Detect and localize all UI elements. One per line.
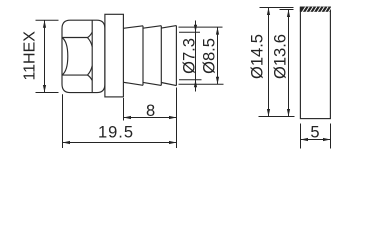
- svg-text:Ø7.3: Ø7.3: [180, 38, 198, 74]
- dia8.5 dimension line: [217, 27, 219, 84]
- arrow dim8 left: [124, 116, 132, 119]
- hex nut body silhouette: [62, 20, 105, 92]
- svg-text:5: 5: [310, 124, 319, 142]
- arrow dia8.5 top inside: [216, 27, 219, 34]
- dia7.3 dimension line: [195, 21, 197, 92]
- dim 5 left extension line: [300, 124, 302, 149]
- 11HEX dimension line: [44, 20, 46, 92]
- dia8.5 bottom extension line: [179, 83, 224, 85]
- hex middle facet left arc: [62, 38, 68, 76]
- 11HEX bottom extension line: [36, 92, 59, 94]
- shared right extension line: [176, 88, 178, 149]
- arrow dia7.3 top outside: [194, 25, 197, 33]
- svg-text:Ø8.5: Ø8.5: [200, 38, 218, 74]
- dia13.6 dimension line: [288, 10, 290, 117]
- svg-text:8: 8: [146, 102, 155, 120]
- 11HEX top extension line: [36, 19, 59, 21]
- dia8.5 top extension line: [179, 26, 223, 28]
- arrow 11HEX up: [43, 20, 46, 28]
- barb segment 3 top edge: [161, 26, 176, 29]
- barb segment 2 top edge: [143, 26, 161, 29]
- dim 5 dimension line: [301, 139, 331, 141]
- barb segment 3 bottom edge: [161, 83, 176, 86]
- arrow dim19.5 right: [169, 141, 177, 144]
- arrow dia14.5 down: [267, 109, 270, 117]
- barb step 2: [160, 26, 162, 86]
- hex lower facet right arc: [88, 75, 93, 81]
- dim 5 right extension line: [330, 124, 332, 149]
- arrow dim19.5 left: [63, 141, 71, 144]
- shared bottom extension line: [259, 116, 295, 118]
- sleeve hatched crimp band: [300, 7, 332, 12]
- barb segment 1 bottom edge: [123, 82, 143, 85]
- svg-text:11HEX: 11HEX: [22, 31, 39, 81]
- hex chamfer face line: [91, 20, 93, 92]
- hex middle facet right upper arc: [88, 38, 93, 47]
- svg-text:Ø13.6: Ø13.6: [271, 34, 289, 79]
- hex facet line lower: [62, 74, 88, 76]
- arrow dia13.6 up: [287, 10, 290, 18]
- dia7.3 bottom extension line: [179, 79, 202, 81]
- arrow dim5 right: [323, 138, 331, 141]
- dia13.6 top extension line: [280, 9, 294, 11]
- dim 19.5 dimension line: [63, 142, 177, 144]
- dim 19.5 left extension line: [62, 94, 64, 148]
- arrow dia8.5 bottom inside: [216, 77, 219, 85]
- svg-text:19.5: 19.5: [98, 124, 134, 142]
- barb tip face: [175, 26, 177, 86]
- arrow dia7.3 bottom outside: [194, 80, 197, 88]
- hex facet line upper: [62, 37, 88, 39]
- dia7.3 top extension line: [179, 31, 200, 33]
- collar ring: [105, 14, 124, 97]
- sleeve body rectangle: [300, 7, 330, 119]
- hex middle facet right lower arc: [88, 66, 93, 75]
- arrow dim5 left: [301, 138, 309, 141]
- barb step 1: [142, 26, 144, 86]
- dia14.5 dimension line: [268, 8, 270, 117]
- arrow dia13.6 down: [287, 109, 290, 117]
- arrow dim8 right: [169, 116, 177, 119]
- dim 8 dimension line: [124, 117, 177, 119]
- arrow 11HEX down: [43, 85, 46, 93]
- dia14.5 top extension line: [260, 7, 294, 9]
- hex upper facet right arc: [88, 32, 93, 38]
- barb segment 2 bottom edge: [143, 82, 161, 85]
- dim 8 left extension line: [123, 98, 125, 121]
- barb segment 1 top edge: [123, 26, 143, 29]
- svg-text:Ø14.5: Ø14.5: [248, 34, 266, 79]
- arrow dia14.5 up: [267, 8, 270, 16]
